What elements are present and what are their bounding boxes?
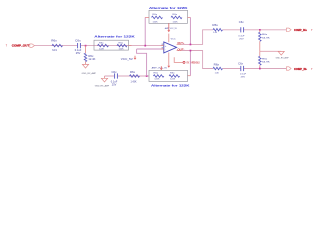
svg-text:122K: 122K <box>154 79 160 81</box>
svg-text:VCC_5V: VCC_5V <box>121 58 133 61</box>
svg-text:GND_RX_AMP: GND_RX_AMP <box>95 84 110 87</box>
svg-text:1.4K: 1.4K <box>215 73 220 75</box>
svg-text:0.1uF: 0.1uF <box>238 35 245 37</box>
svg-text:12.4K: 12.4K <box>88 59 96 61</box>
svg-text:VCC: VCC <box>171 38 177 40</box>
svg-text:COMP_IN-: COMP_IN- <box>294 67 307 71</box>
svg-text:Alternate for 122K: Alternate for 122K <box>151 83 190 87</box>
svg-text:25V: 25V <box>239 38 244 40</box>
svg-text:Alternate for 122K: Alternate for 122K <box>149 6 188 10</box>
svg-text:122K: 122K <box>153 21 159 23</box>
svg-text:25V: 25V <box>112 85 117 87</box>
svg-text:64.9K: 64.9K <box>262 37 270 39</box>
svg-text:COMP_OUT: COMP_OUT <box>12 44 30 48</box>
svg-text:1.4K: 1.4K <box>213 32 218 34</box>
svg-text:0.1uF: 0.1uF <box>240 73 247 75</box>
svg-text:25V: 25V <box>241 76 246 78</box>
svg-text:122K: 122K <box>173 21 179 23</box>
svg-text:GND_RX_AMP: GND_RX_AMP <box>276 56 289 59</box>
svg-text:122K: 122K <box>170 79 176 81</box>
svg-text:0.1uF: 0.1uF <box>111 82 118 84</box>
svg-text:AMP_VCC_5V: AMP_VCC_5V <box>165 27 177 30</box>
svg-text:122K: 122K <box>119 48 125 50</box>
svg-text:25V: 25V <box>76 53 81 55</box>
svg-text:64.9: 64.9 <box>52 50 57 52</box>
svg-text:0.1uF: 0.1uF <box>75 50 82 52</box>
svg-text:Alternate for 122K: Alternate for 122K <box>94 35 135 39</box>
svg-text:GND_RX_AMP: GND_RX_AMP <box>82 72 97 75</box>
svg-text:-: - <box>165 48 166 52</box>
svg-text:COMP_IN+: COMP_IN+ <box>294 28 307 32</box>
svg-text:1.43K: 1.43K <box>131 82 137 84</box>
svg-text:RX_THRESHOLD: RX_THRESHOLD <box>187 61 200 65</box>
svg-text:AMP_VCC_5V: AMP_VCC_5V <box>152 67 168 70</box>
svg-text:64.9K: 64.9K <box>262 61 270 63</box>
svg-text:122K: 122K <box>99 48 105 50</box>
